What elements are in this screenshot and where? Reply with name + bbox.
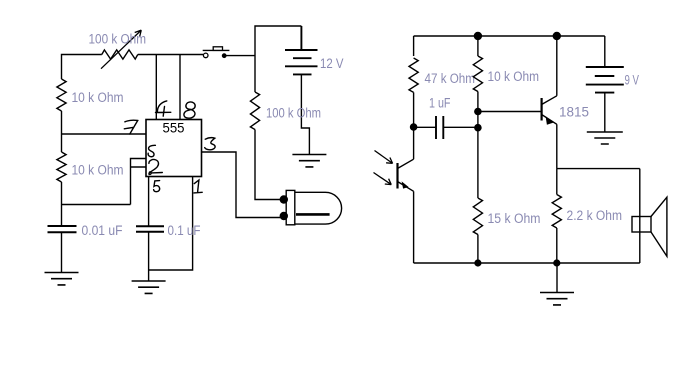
wire speaker through body	[639, 217, 641, 233]
transistor 1815 emitter	[542, 115, 557, 125]
phototransistor emitter	[398, 182, 414, 192]
wire phototransistor emitter down	[413, 191, 415, 263]
wire capacitor to ground	[61, 232, 63, 272]
phototransistor emitter arrow	[402, 181, 409, 188]
pin number 2	[149, 160, 162, 175]
wire cap left	[414, 126, 436, 128]
LED body	[286, 190, 295, 224]
junction dot cap-10k	[474, 124, 482, 132]
wire cap right	[443, 126, 478, 128]
pin number 6	[148, 145, 155, 156]
potentiometer wiper arrow	[101, 30, 141, 69]
wire pot to switch	[138, 54, 203, 56]
wire rail to 10k	[477, 36, 479, 56]
capacitor 0.01uF	[48, 226, 77, 232]
wire emitter down	[556, 124, 558, 168]
wire 15k to rail	[477, 235, 479, 264]
bottom rail	[414, 262, 640, 264]
junction dot rail left	[474, 32, 482, 40]
junction dot 47k-cap	[410, 123, 418, 131]
wire switch to battery node	[227, 55, 256, 57]
svg-text:10 k Ohm: 10 k Ohm	[488, 69, 540, 84]
phototransistor collector	[398, 159, 414, 168]
resistor 10k lower-left	[57, 152, 66, 182]
light arrow 1	[375, 151, 393, 164]
svg-text:2.2 k Ohm: 2.2 k Ohm	[567, 208, 623, 223]
wire top-left corner	[62, 55, 102, 80]
svg-text:9 V: 9 V	[625, 73, 640, 88]
wire 555 pin 1	[149, 177, 193, 271]
ground under 0.1uF	[132, 281, 166, 293]
wire to 555 pins 6 and 2	[131, 159, 147, 205]
svg-text:0.1 uF: 0.1 uF	[168, 223, 201, 238]
svg-text:10 k Ohm: 10 k Ohm	[72, 90, 124, 105]
svg-text:15 k Ohm: 15 k Ohm	[488, 211, 541, 226]
pin number 5	[154, 181, 160, 192]
pin number 4	[156, 101, 171, 116]
potentiometer 100k zigzag	[102, 50, 138, 59]
wire 100k to LED	[255, 130, 280, 200]
transistor 1815 base bar	[540, 98, 542, 121]
ground under 9V battery	[587, 132, 623, 144]
svg-text:10 k Ohm: 10 k Ohm	[72, 163, 124, 178]
switch button	[213, 47, 222, 51]
svg-text:0.01 uF: 0.01 uF	[82, 223, 123, 238]
wire node 2 to capacitor	[61, 205, 63, 227]
svg-text:555: 555	[163, 121, 185, 136]
battery 12V	[285, 26, 318, 74]
wire 555 pin 4	[155, 55, 157, 120]
wire resistor to node 2	[61, 182, 63, 205]
wire 555 pin 8	[179, 55, 181, 120]
wire battery branch	[255, 26, 301, 92]
transistor 1815 emitter arrow	[546, 116, 554, 125]
speaker body	[632, 217, 651, 233]
switch contact circle	[203, 53, 208, 58]
wire left vertical	[61, 134, 63, 152]
wire collector to rail	[556, 36, 558, 96]
svg-text:100 k Ohm: 100 k Ohm	[266, 106, 321, 121]
pin number 8	[184, 101, 197, 119]
wire speaker vertical	[639, 169, 641, 263]
transistor 1815 collector	[542, 96, 557, 105]
switch contact dot	[222, 53, 227, 58]
top rail	[414, 35, 605, 37]
wire rail to 9V battery	[604, 36, 606, 67]
capacitor 1uF	[436, 116, 443, 139]
svg-text:47 k Ohm: 47 k Ohm	[425, 71, 476, 86]
resistor 15k	[473, 198, 482, 235]
junction dot 15k bottom	[474, 259, 481, 266]
resistor 10k upper-left	[57, 79, 66, 111]
junction dot base node	[474, 108, 482, 116]
wire capacitor 0.1uF to ground	[148, 232, 150, 281]
junction dot 2.2k bottom	[553, 259, 560, 266]
svg-text:100 k Ohm: 100 k Ohm	[89, 32, 147, 47]
LED cathode dot	[280, 212, 288, 220]
capacitor 0.1uF	[136, 226, 164, 231]
wire 555 pin 5	[148, 177, 150, 227]
wire 2.2k to rail	[556, 228, 558, 263]
LED anode dot	[280, 195, 288, 203]
battery 9V	[586, 67, 624, 93]
svg-text:12 V: 12 V	[320, 56, 344, 71]
ground under 12V battery	[292, 155, 326, 167]
wire 47k down to phototransistor	[413, 92, 415, 159]
wire 10k down to 15k	[477, 92, 479, 199]
wire node 2 horizontal	[62, 204, 131, 206]
resistor 47k	[409, 58, 418, 92]
light arrow 2	[374, 173, 392, 185]
wire 555 pin 3 to LED	[202, 152, 281, 218]
wire node to 555 pin 7	[62, 133, 147, 135]
pin number 7	[124, 120, 137, 134]
wire emitter to speaker	[557, 168, 640, 170]
ground under 0.01uF	[45, 273, 79, 285]
resistor 100k right	[250, 92, 259, 130]
pin number 3	[205, 138, 215, 150]
svg-text:1 uF: 1 uF	[429, 96, 451, 111]
wire rail to 47k	[413, 36, 415, 56]
svg-text:1815: 1815	[559, 105, 589, 120]
wire emitter node to 2.2k	[556, 169, 558, 195]
pin number 1	[194, 180, 202, 193]
switch bar	[203, 49, 230, 51]
IC 555 box	[146, 120, 202, 177]
wire base	[478, 111, 542, 113]
resistor 10k right circuit	[473, 56, 482, 92]
resistor 2.2k	[552, 195, 561, 229]
junction dot rail right	[553, 32, 561, 40]
speaker horn	[651, 197, 667, 256]
wire resistor to node	[61, 111, 63, 134]
phototransistor base bar	[396, 163, 398, 189]
ground bottom rail	[556, 263, 558, 293]
